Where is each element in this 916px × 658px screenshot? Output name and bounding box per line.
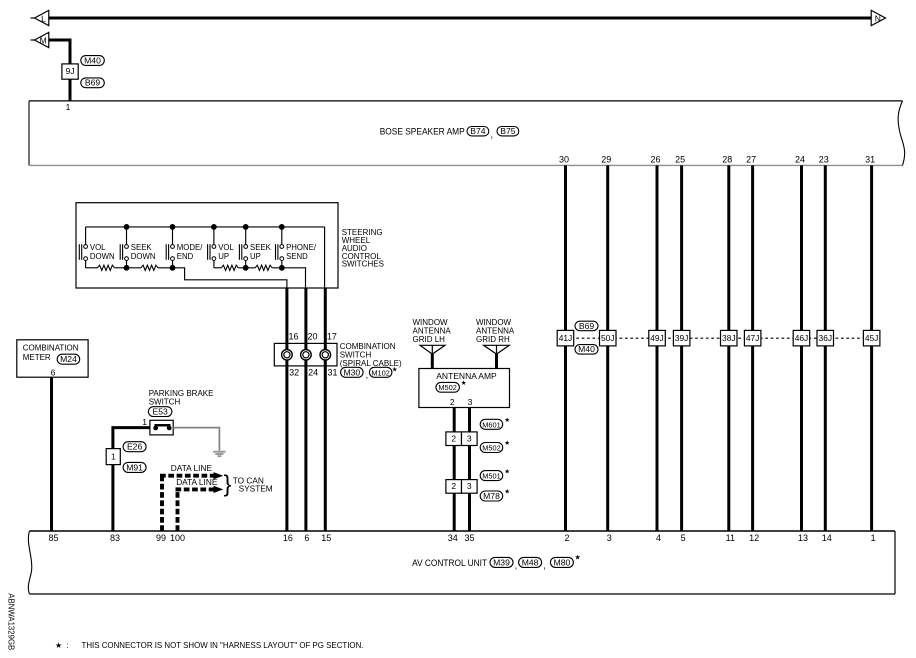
svg-text:★: ★ xyxy=(575,554,581,562)
svg-text:24: 24 xyxy=(795,154,805,164)
connector M39 xyxy=(490,557,513,567)
svg-text:SEEK: SEEK xyxy=(250,243,272,252)
connector pair M501/M78 xyxy=(446,480,477,494)
spiral cable coil 17/31 xyxy=(320,350,331,361)
wire spiral cable 20 to AV xyxy=(304,288,307,531)
svg-text:★: ★ xyxy=(55,641,62,650)
junction chain B at SEEK UP xyxy=(243,265,249,271)
svg-text:M78: M78 xyxy=(483,491,500,501)
svg-text:M30: M30 xyxy=(343,367,360,377)
wire BOSE pin 23 to AV pin 14 xyxy=(824,165,827,531)
svg-text:2: 2 xyxy=(451,481,456,491)
svg-text:24: 24 xyxy=(308,368,318,378)
svg-text:2: 2 xyxy=(564,533,569,543)
svg-text:B75: B75 xyxy=(500,126,516,136)
connector M48 xyxy=(519,557,542,567)
wire from arrow M to BOSE amp pin 1 xyxy=(49,40,70,101)
wire BOSE pin 31 to AV pin 1 xyxy=(870,165,873,531)
wire xyxy=(238,267,255,269)
svg-text:50J: 50J xyxy=(601,333,615,343)
svg-text:16: 16 xyxy=(283,533,293,543)
parking brake switch S1 xyxy=(150,420,173,435)
svg-text:,: , xyxy=(515,561,518,571)
wire BOSE pin 25 to AV pin 5 xyxy=(680,165,683,531)
wire BOSE pin 26 to AV pin 4 xyxy=(656,165,659,531)
AV control unit box xyxy=(28,531,895,594)
svg-text:N: N xyxy=(875,14,881,24)
svg-text:83: 83 xyxy=(110,533,120,543)
connector 41J xyxy=(557,330,574,346)
svg-text:11: 11 xyxy=(726,533,735,543)
svg-text:M39: M39 xyxy=(493,557,510,567)
connector 38J xyxy=(721,330,738,346)
svg-text:M501: M501 xyxy=(482,472,501,481)
svg-text:30: 30 xyxy=(559,154,569,164)
svg-text:27: 27 xyxy=(746,154,756,164)
svg-text:M102: M102 xyxy=(371,368,390,377)
wire parking brake switch to AV pin 83 xyxy=(113,428,150,531)
svg-text:16: 16 xyxy=(288,332,298,342)
svg-text:1: 1 xyxy=(871,533,876,543)
arrow data line 2 xyxy=(214,486,224,493)
svg-text:DATA LINE: DATA LINE xyxy=(176,477,218,487)
wire data line 1 (CAN) xyxy=(160,474,164,531)
svg-text:6: 6 xyxy=(51,367,56,377)
switch SEEKUP xyxy=(239,227,271,268)
steering wheel audio control switches box xyxy=(76,203,338,288)
bus arrow M xyxy=(31,39,36,41)
wire bus L to N xyxy=(49,17,871,20)
wire BOSE pin 30 to AV pin 2 xyxy=(564,165,567,531)
antenna amp box U1 xyxy=(419,369,510,408)
connector M502 xyxy=(436,382,460,392)
svg-text:2: 2 xyxy=(451,434,456,444)
svg-text:SYSTEM: SYSTEM xyxy=(239,483,273,493)
connector E26 xyxy=(123,442,146,452)
junction top bus at MODE/ END xyxy=(170,224,176,230)
junction chain B at PHONE/SEND xyxy=(279,265,285,271)
svg-text:UP: UP xyxy=(250,252,261,261)
svg-text:M: M xyxy=(40,36,47,46)
svg-text:VOL: VOL xyxy=(90,243,106,252)
svg-text:14: 14 xyxy=(822,533,832,543)
svg-text:B69: B69 xyxy=(85,78,101,88)
connector M24 xyxy=(57,354,79,364)
resistor R3 (VOL UP-SEEK UP) xyxy=(221,265,238,270)
svg-text:,: , xyxy=(366,370,369,380)
connector M501 xyxy=(480,471,503,481)
svg-text:39J: 39J xyxy=(675,333,689,343)
svg-text:49J: 49J xyxy=(650,333,664,343)
svg-text:SWITCH: SWITCH xyxy=(149,397,181,406)
connector M102 xyxy=(369,367,392,377)
svg-text:UP: UP xyxy=(218,252,229,261)
connector 45J xyxy=(863,330,880,346)
connector M40 xyxy=(81,55,105,65)
svg-text:4: 4 xyxy=(656,533,661,543)
svg-text:,: , xyxy=(491,130,494,140)
junction top bus at SEEK UP xyxy=(243,224,249,230)
svg-text:13: 13 xyxy=(798,533,808,543)
svg-text:41J: 41J xyxy=(559,333,573,343)
svg-text:1: 1 xyxy=(142,417,147,427)
connector 39J xyxy=(673,330,690,346)
svg-text:B69: B69 xyxy=(579,321,595,331)
connector M40 (harness link) xyxy=(575,344,598,354)
wire top bus of switches xyxy=(86,226,325,228)
wire top bus down to pin 17 exit xyxy=(324,227,326,288)
svg-text:★: ★ xyxy=(392,366,398,374)
svg-text:PHONE/: PHONE/ xyxy=(286,243,317,252)
connector pair M601/M502 xyxy=(446,432,477,446)
svg-text:35: 35 xyxy=(464,533,474,543)
connector B69 xyxy=(81,78,105,88)
svg-text:23: 23 xyxy=(819,154,829,164)
svg-text:45J: 45J xyxy=(865,333,879,343)
svg-text:32: 32 xyxy=(289,368,299,378)
svg-text:★: ★ xyxy=(504,416,510,424)
svg-text:38J: 38J xyxy=(722,333,736,343)
bus arrow L (to preceding page) xyxy=(31,17,36,19)
wire antenna amp pin 3 to AV pin 35 xyxy=(468,408,471,532)
svg-text:25: 25 xyxy=(675,154,685,164)
svg-text:26: 26 xyxy=(650,154,660,164)
svg-text:,: , xyxy=(543,561,546,571)
connector M30 xyxy=(341,367,364,377)
svg-text:M502: M502 xyxy=(438,383,457,392)
svg-text:31: 31 xyxy=(865,154,875,164)
wire parking brake switch to ground xyxy=(173,428,219,451)
svg-text:E53: E53 xyxy=(153,407,169,417)
svg-text:BOSE SPEAKER AMP: BOSE SPEAKER AMP xyxy=(380,127,465,137)
svg-text:20: 20 xyxy=(307,332,317,342)
svg-text:99: 99 xyxy=(156,533,166,543)
svg-text:DOWN: DOWN xyxy=(131,252,156,261)
connector 49J xyxy=(649,330,666,346)
svg-text:E26: E26 xyxy=(127,442,143,452)
svg-text:B74: B74 xyxy=(470,126,486,136)
svg-text:M601: M601 xyxy=(482,420,501,429)
svg-text:6: 6 xyxy=(304,533,309,543)
wire chain B exit to pin 20 xyxy=(272,268,305,288)
svg-text:12: 12 xyxy=(749,533,759,543)
svg-text:28: 28 xyxy=(722,154,732,164)
svg-text:GRID RH: GRID RH xyxy=(476,335,510,344)
connector 46J xyxy=(793,330,810,346)
wire BOSE pin 27 to AV pin 12 xyxy=(751,165,754,531)
spiral cable coil 20/24 xyxy=(301,350,312,361)
svg-text:★: ★ xyxy=(504,439,510,447)
wire chain A exit to pin 16 xyxy=(158,268,287,288)
svg-text:GRID LH: GRID LH xyxy=(413,335,446,344)
connector B69 (harness link) xyxy=(575,321,598,331)
combination meter box xyxy=(17,340,88,377)
combination switch (spiral cable) box xyxy=(274,343,337,366)
ground xyxy=(213,452,225,457)
antenna RH symbol xyxy=(484,345,510,368)
svg-text:COMBINATION: COMBINATION xyxy=(23,344,79,353)
svg-text:★: ★ xyxy=(504,488,510,496)
switch PHONE/SEND xyxy=(276,227,317,268)
svg-text:3: 3 xyxy=(468,397,473,407)
svg-text:15: 15 xyxy=(321,533,331,543)
svg-text:ABNWA1329GB: ABNWA1329GB xyxy=(6,593,15,650)
wire BOSE pin 24 to AV pin 13 xyxy=(800,165,803,531)
resistor R2 (SEEK DOWN-MODE/END) xyxy=(141,265,158,270)
svg-text:9J: 9J xyxy=(65,66,74,76)
junction top bus at PHONE/ SEND xyxy=(279,224,285,230)
wire data line 2 (CAN) xyxy=(176,487,180,531)
svg-text:L: L xyxy=(41,14,46,24)
wire xyxy=(115,267,142,269)
wire bottom chain A (VOL DOWN/SEEK DOWN/MODE-END) xyxy=(86,267,98,269)
svg-text:AV CONTROL UNIT: AV CONTROL UNIT xyxy=(412,558,487,568)
svg-text:MODE/: MODE/ xyxy=(177,243,203,252)
svg-text:47J: 47J xyxy=(746,333,760,343)
svg-text:M91: M91 xyxy=(126,462,143,472)
bus arrow N (to next page) xyxy=(871,10,885,25)
switch VOLUP xyxy=(208,227,235,268)
junction chain A at SEEK DOWN xyxy=(124,265,130,271)
connector B74 xyxy=(467,126,489,136)
svg-text:1: 1 xyxy=(111,451,116,461)
connector 36J xyxy=(817,330,834,346)
svg-text:2: 2 xyxy=(450,397,455,407)
svg-text:100: 100 xyxy=(170,533,185,543)
svg-text:ANTENNA AMP: ANTENNA AMP xyxy=(436,371,497,381)
svg-text:}: } xyxy=(224,471,232,497)
svg-text:SWITCHES: SWITCHES xyxy=(342,260,384,269)
connector 47J xyxy=(744,330,761,346)
wire spiral cable 17 to AV xyxy=(324,288,327,531)
dashed connector link line xyxy=(566,337,872,339)
svg-text:34: 34 xyxy=(448,533,458,543)
wire combination meter pin 6 to AV pin 85 xyxy=(50,377,53,531)
switch VOLDOWN xyxy=(79,227,114,268)
svg-text:17: 17 xyxy=(327,332,337,342)
svg-text:M40: M40 xyxy=(578,344,595,354)
connector 1 (E26/M91) xyxy=(106,449,120,465)
connector M502 (lower) xyxy=(480,443,503,453)
svg-text:46J: 46J xyxy=(795,333,809,343)
resistor R4 (SEEK UP-PHONE/SEND) xyxy=(255,265,272,270)
svg-text:M48: M48 xyxy=(522,557,539,567)
resistor R1 (VOL DOWN-SEEK DOWN) xyxy=(98,265,115,270)
wire BOSE pin 28 to AV pin 11 xyxy=(727,165,730,531)
svg-text::: : xyxy=(67,640,69,650)
svg-text:★: ★ xyxy=(461,379,467,387)
svg-text:85: 85 xyxy=(48,533,58,543)
antenna LH symbol xyxy=(420,345,445,368)
junction top bus at VOL UP xyxy=(211,224,217,230)
connector M91 xyxy=(123,462,146,472)
junction chain A at MODE/END xyxy=(170,265,176,271)
arrow data line 1 xyxy=(214,472,224,479)
svg-text:31: 31 xyxy=(327,368,337,378)
svg-text:36J: 36J xyxy=(819,333,833,343)
svg-text:3: 3 xyxy=(467,481,472,491)
svg-text:M80: M80 xyxy=(554,557,571,567)
junction top bus at SEEK DOWN xyxy=(124,224,130,230)
connector B75 xyxy=(497,126,519,136)
svg-text:M502: M502 xyxy=(482,444,501,453)
wire bottom chain B (VOL UP/SEEK UP/PHONE-SEND) xyxy=(214,267,221,269)
svg-text:END: END xyxy=(177,252,194,261)
switch MODE/END xyxy=(166,227,203,268)
svg-text:★: ★ xyxy=(504,467,510,475)
BOSE speaker amp box xyxy=(29,101,905,165)
svg-text:METER: METER xyxy=(23,353,51,362)
svg-text:THIS CONNECTOR IS NOT SHOW IN: THIS CONNECTOR IS NOT SHOW IN "HARNESS L… xyxy=(82,640,364,650)
wire antenna amp pin 2 to AV pin 34 xyxy=(453,408,456,532)
connector E53 xyxy=(148,407,172,417)
svg-text:1: 1 xyxy=(66,102,71,112)
svg-text:3: 3 xyxy=(607,533,612,543)
connector 50J xyxy=(600,330,617,346)
svg-text:SEND: SEND xyxy=(286,252,308,261)
connector M601 xyxy=(480,419,503,429)
svg-text:DOWN: DOWN xyxy=(90,252,115,261)
wire BOSE pin 29 to AV pin 3 xyxy=(606,165,609,531)
svg-text:SEEK: SEEK xyxy=(131,243,153,252)
svg-text:M24: M24 xyxy=(60,354,77,364)
svg-text:DATA LINE: DATA LINE xyxy=(171,463,213,473)
svg-text:3: 3 xyxy=(467,434,472,444)
svg-text:29: 29 xyxy=(601,154,611,164)
svg-text:5: 5 xyxy=(681,533,686,543)
connector M78 xyxy=(480,491,503,501)
svg-text:VOL: VOL xyxy=(218,243,234,252)
connector M80 xyxy=(550,557,573,567)
switch SEEKDOWN xyxy=(120,227,155,268)
wire spiral cable 16 to AV xyxy=(285,288,288,531)
connector 9J xyxy=(62,64,78,79)
spiral cable coil 16/32 xyxy=(282,350,293,361)
svg-text:M40: M40 xyxy=(84,55,101,65)
